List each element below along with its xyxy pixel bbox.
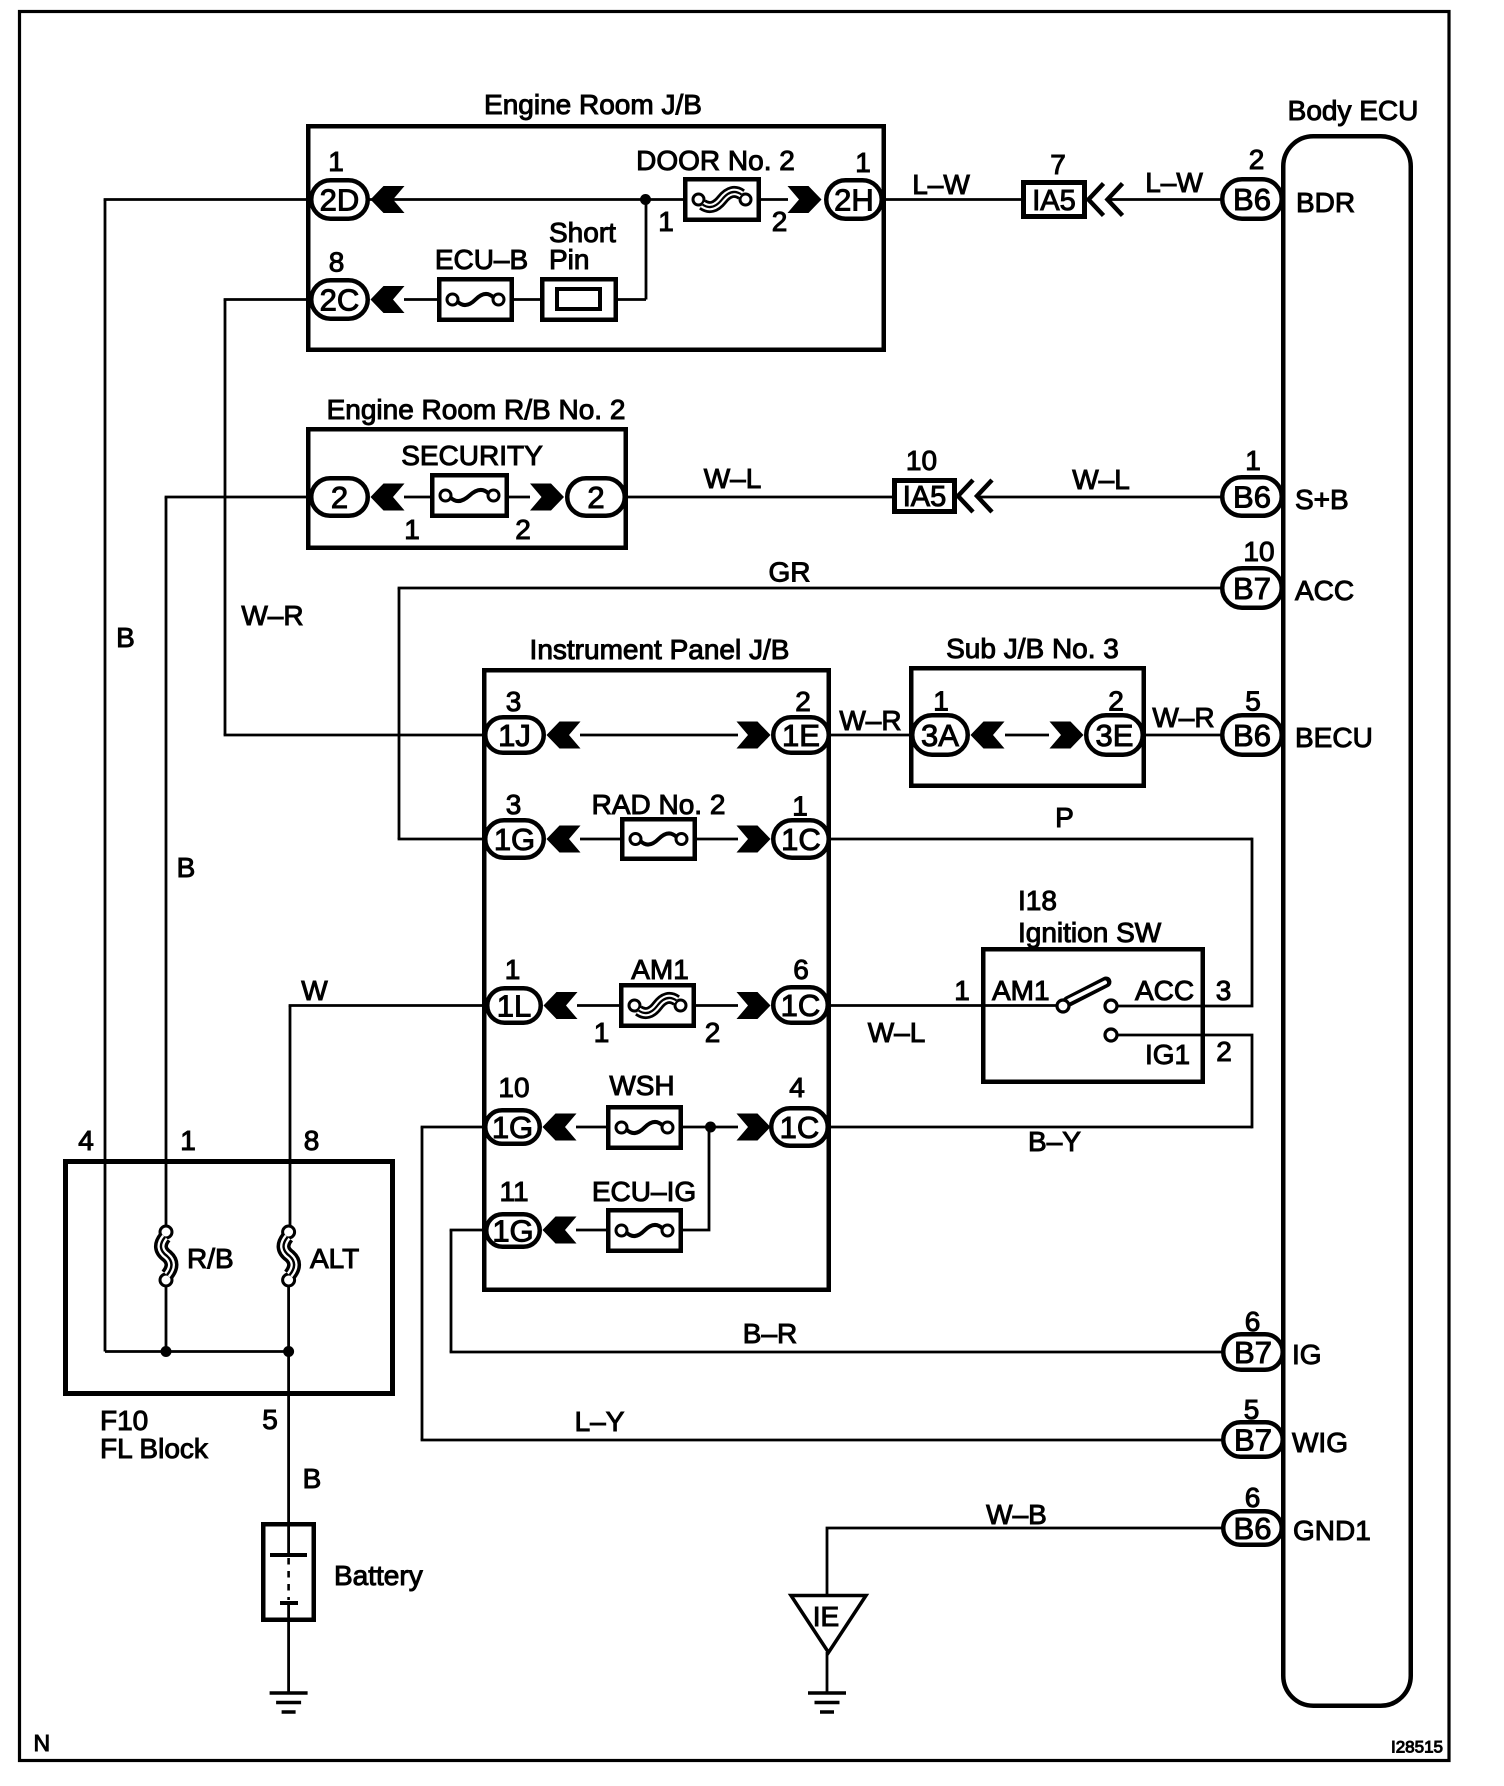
wire GR horizontal from ACC xyxy=(398,587,1222,590)
wire from SECURITY pin1 down to R/B fusible link xyxy=(165,497,168,1226)
svg-text:2: 2 xyxy=(1216,1036,1232,1067)
svg-text:1: 1 xyxy=(404,514,420,545)
svg-text:3: 3 xyxy=(506,686,522,717)
terminal oval B7 WIG xyxy=(1223,1422,1283,1457)
svg-text:Pin: Pin xyxy=(549,244,589,275)
svg-text:ACC: ACC xyxy=(1295,575,1354,606)
fuse ECU-IG xyxy=(608,1210,681,1251)
arrow into 2C xyxy=(371,286,405,313)
svg-text:B: B xyxy=(303,1463,322,1494)
svg-text:F10: F10 xyxy=(100,1405,148,1436)
junction node on 2D-DOOR wire xyxy=(640,194,651,205)
wire junction down to Short Pin xyxy=(645,200,648,300)
connector oval 2 right xyxy=(567,478,625,516)
svg-text:W–L: W–L xyxy=(704,463,762,494)
junction node ALT xyxy=(283,1346,294,1357)
svg-text:I18: I18 xyxy=(1018,885,1057,916)
F10 FL block box xyxy=(66,1162,393,1394)
svg-text:2D: 2D xyxy=(320,183,360,218)
svg-text:1L: 1L xyxy=(497,989,531,1024)
svg-text:1: 1 xyxy=(658,206,674,237)
svg-text:B7: B7 xyxy=(1234,1335,1272,1370)
wire 3A-3E xyxy=(1005,734,1049,737)
wire IE to ground xyxy=(826,1652,829,1693)
wire 2C to left column xyxy=(224,298,311,301)
svg-text:2: 2 xyxy=(515,514,531,545)
arrow into 1E xyxy=(737,722,771,749)
fuse DOOR No. 2 xyxy=(685,179,759,220)
arrow into 1J xyxy=(547,722,581,749)
switch ACC contact xyxy=(1105,1000,1117,1012)
svg-text:IA5: IA5 xyxy=(903,481,947,513)
fusible link R/B xyxy=(160,1226,172,1238)
svg-text:S+B: S+B xyxy=(1295,484,1349,515)
wire WSH 1G left xyxy=(421,1126,484,1129)
svg-text:P: P xyxy=(1055,802,1074,833)
svg-text:BECU: BECU xyxy=(1295,722,1373,753)
row RAD wire segments xyxy=(580,838,622,841)
svg-text:2: 2 xyxy=(772,206,788,237)
svg-text:W–B: W–B xyxy=(986,1499,1047,1530)
svg-text:WSH: WSH xyxy=(609,1070,674,1101)
wire ECU-IG 1G left xyxy=(450,1229,484,1232)
wire W-R down to 1J horizontal xyxy=(224,734,484,737)
row ECU-IG wire segments xyxy=(576,1229,608,1232)
ignition switch I18 box xyxy=(983,949,1203,1082)
fuse SECURITY xyxy=(432,475,507,516)
svg-text:BDR: BDR xyxy=(1296,187,1355,218)
double chevron into IA5 xyxy=(1089,184,1123,216)
svg-text:1: 1 xyxy=(954,975,970,1006)
svg-text:4: 4 xyxy=(78,1125,94,1156)
svg-text:6: 6 xyxy=(793,954,809,985)
switch IG1 contact xyxy=(1105,1029,1117,1041)
wire 2 to IA5 xyxy=(626,496,894,499)
svg-text:SECURITY: SECURITY xyxy=(401,440,543,471)
svg-text:5: 5 xyxy=(1245,686,1261,717)
svg-text:1: 1 xyxy=(855,147,871,178)
svg-text:1C: 1C xyxy=(780,1110,820,1145)
svg-text:1: 1 xyxy=(505,954,521,985)
svg-text:2: 2 xyxy=(1249,144,1265,175)
terminal oval B7 IG xyxy=(1223,1334,1283,1370)
svg-text:2H: 2H xyxy=(834,183,874,218)
svg-text:1: 1 xyxy=(328,146,344,177)
junction node after WSH xyxy=(705,1122,716,1133)
svg-text:B6: B6 xyxy=(1234,1511,1272,1546)
arrow into 2H xyxy=(788,186,822,213)
junction node R/B xyxy=(161,1346,172,1357)
svg-text:AM1: AM1 xyxy=(631,954,689,985)
terminal oval B7 ACC xyxy=(1222,568,1282,608)
wire B from 2D down to FL block junction xyxy=(104,200,107,1352)
svg-text:L–W: L–W xyxy=(912,169,970,200)
svg-text:1G: 1G xyxy=(492,1214,533,1249)
svg-text:1G: 1G xyxy=(494,822,535,857)
arrow into 1G rad xyxy=(547,826,581,853)
connector oval 2 left xyxy=(311,478,368,516)
terminal oval B6 GND1 xyxy=(1223,1511,1282,1545)
svg-text:B–R: B–R xyxy=(743,1318,797,1349)
wire ECU-IG fuse up to WSH junction xyxy=(681,1127,709,1230)
double chevron into IA5 second xyxy=(958,480,992,512)
arrow into 1L xyxy=(544,992,578,1019)
svg-text:2: 2 xyxy=(587,480,604,515)
wire R/B link to oval 2 xyxy=(165,496,311,499)
svg-text:Ignition SW: Ignition SW xyxy=(1018,917,1162,948)
battery ground xyxy=(270,1691,308,1695)
wire W horizontal to 1L xyxy=(289,1004,486,1007)
svg-text:W–L: W–L xyxy=(1072,464,1130,495)
svg-text:2: 2 xyxy=(795,686,811,717)
svg-text:IG1: IG1 xyxy=(1145,1039,1190,1070)
battery xyxy=(263,1524,314,1620)
Body ECU box xyxy=(1283,136,1411,1706)
svg-text:GR: GR xyxy=(769,557,811,588)
svg-text:ECU–B: ECU–B xyxy=(435,244,528,275)
svg-text:W–R: W–R xyxy=(241,600,303,631)
svg-text:3A: 3A xyxy=(921,718,959,753)
fusible link ALT xyxy=(283,1226,295,1238)
wire AM1 into switch xyxy=(983,1004,1057,1007)
wire RAD row to GR column xyxy=(398,838,484,841)
wire IA5 to BDR xyxy=(1109,198,1222,201)
wire L-Y horizontal to WIG xyxy=(421,1439,1222,1442)
Sub J/B No. 3 box xyxy=(911,668,1144,786)
wire B-Y from 1C to ignition IG1 xyxy=(829,1126,1252,1129)
row AM1 wire segments xyxy=(577,1004,621,1007)
svg-text:W–R: W–R xyxy=(1152,702,1214,733)
arrow into 1C wsh xyxy=(737,1114,771,1141)
wire B-R horizontal to IG xyxy=(450,1351,1222,1354)
svg-text:B7: B7 xyxy=(1233,571,1271,606)
terminal oval B6 BECU xyxy=(1222,715,1282,755)
wire 2D to DOOR fuse xyxy=(369,198,685,201)
svg-text:10: 10 xyxy=(906,445,937,476)
arrow into right 2 xyxy=(530,484,564,511)
wire R/B link to junction xyxy=(165,1286,168,1352)
svg-text:DOOR No. 2: DOOR No. 2 xyxy=(636,145,795,176)
svg-text:1: 1 xyxy=(180,1125,196,1156)
svg-text:B–Y: B–Y xyxy=(1028,1126,1081,1157)
svg-text:3: 3 xyxy=(506,789,522,820)
wire B-R vertical from ECU-IG 1G xyxy=(450,1230,453,1352)
wire 2C arrow to ECU-B xyxy=(404,298,437,301)
fuse WSH xyxy=(608,1107,681,1148)
arrow into 1G ecuig xyxy=(543,1217,577,1244)
fuse AM1 xyxy=(621,985,694,1026)
wire ECU-B to Short Pin xyxy=(514,298,542,301)
row 1J-1E wire xyxy=(580,734,738,737)
svg-text:FL Block: FL Block xyxy=(100,1433,209,1464)
svg-text:6: 6 xyxy=(1245,1482,1261,1513)
svg-text:IG: IG xyxy=(1292,1339,1322,1370)
svg-text:W–R: W–R xyxy=(839,705,901,736)
junction connector IA5 second xyxy=(895,481,955,512)
svg-text:5: 5 xyxy=(262,1404,278,1435)
ground connector IE triangle xyxy=(791,1596,866,1653)
svg-text:IE: IE xyxy=(813,1601,839,1632)
svg-text:Engine Room R/B No. 2: Engine Room R/B No. 2 xyxy=(327,394,626,425)
wire fuse to arrow xyxy=(509,496,530,499)
fuse ECU-B xyxy=(439,279,512,320)
switch pivot contact xyxy=(1057,1000,1069,1012)
svg-text:B6: B6 xyxy=(1233,480,1271,515)
svg-text:1: 1 xyxy=(1245,445,1261,476)
svg-text:ALT: ALT xyxy=(310,1243,359,1274)
svg-text:ACC: ACC xyxy=(1135,975,1194,1006)
wire 1E to 3A xyxy=(830,734,912,737)
battery cell divider dashed xyxy=(287,1558,290,1600)
battery negative plate xyxy=(280,1601,298,1605)
svg-text:IA5: IA5 xyxy=(1032,185,1076,217)
wire arrow to SECURITY fuse xyxy=(404,496,432,499)
svg-text:10: 10 xyxy=(1243,536,1274,567)
wire IG1 contact to box edge xyxy=(1117,1034,1203,1037)
row WSH wire segments xyxy=(576,1126,608,1129)
arrow into 3E xyxy=(1050,722,1084,749)
svg-text:2: 2 xyxy=(1108,686,1124,717)
svg-text:10: 10 xyxy=(498,1072,529,1103)
wire 2H to IA5 xyxy=(883,198,1023,201)
svg-text:1C: 1C xyxy=(781,822,821,857)
arrow into 1G wsh xyxy=(543,1114,577,1141)
svg-text:W: W xyxy=(301,975,328,1006)
Engine Room R/B No. 2 box xyxy=(308,429,626,548)
svg-text:1: 1 xyxy=(594,1017,610,1048)
svg-text:8: 8 xyxy=(304,1125,320,1156)
svg-text:4: 4 xyxy=(789,1072,805,1103)
svg-text:R/B: R/B xyxy=(187,1243,234,1274)
wire 2D to left column xyxy=(104,198,311,201)
svg-text:B: B xyxy=(177,852,196,883)
svg-text:Battery: Battery xyxy=(334,1560,423,1591)
wire ACC contact to box edge xyxy=(1117,1005,1203,1008)
svg-text:GND1: GND1 xyxy=(1293,1515,1371,1546)
svg-text:Body ECU: Body ECU xyxy=(1288,95,1419,126)
svg-text:N: N xyxy=(34,1730,51,1756)
battery positive plate xyxy=(270,1553,307,1557)
svg-text:B6: B6 xyxy=(1233,182,1271,217)
junction line in FL block xyxy=(105,1350,289,1353)
svg-text:Instrument Panel J/B: Instrument Panel J/B xyxy=(530,634,790,665)
svg-text:L–Y: L–Y xyxy=(575,1406,625,1437)
svg-text:1: 1 xyxy=(792,791,808,822)
arrow into 1C rad xyxy=(737,826,771,853)
svg-text:RAD No. 2: RAD No. 2 xyxy=(592,789,726,820)
svg-text:11: 11 xyxy=(499,1176,528,1207)
svg-text:I28515: I28515 xyxy=(1391,1738,1443,1757)
arrow into left 2 xyxy=(371,484,405,511)
junction connector IA5 xyxy=(1024,183,1085,217)
wire IA5 to S+B xyxy=(979,496,1223,499)
svg-text:3: 3 xyxy=(1216,975,1232,1006)
fuse RAD No. 2 xyxy=(622,819,695,859)
svg-text:1E: 1E xyxy=(782,718,820,753)
wire P from 1C to ignition ACC xyxy=(830,838,1252,841)
svg-text:ECU–IG: ECU–IG xyxy=(592,1176,696,1207)
svg-text:2: 2 xyxy=(705,1017,721,1048)
ground IE xyxy=(808,1691,846,1695)
wire battery to ground xyxy=(287,1603,290,1693)
svg-text:1G: 1G xyxy=(492,1110,533,1145)
svg-text:B: B xyxy=(116,622,135,653)
short pin component xyxy=(542,279,616,320)
svg-text:8: 8 xyxy=(329,247,345,278)
svg-text:1: 1 xyxy=(933,686,949,717)
arrow into 2D xyxy=(371,186,405,213)
switch lever xyxy=(1068,982,1106,1002)
svg-text:B7: B7 xyxy=(1234,1423,1272,1458)
svg-text:2: 2 xyxy=(331,480,348,515)
Instrument Panel J/B box xyxy=(484,670,829,1290)
terminal oval B6 S+B xyxy=(1222,477,1282,516)
svg-text:L–W: L–W xyxy=(1145,167,1203,198)
svg-text:1J: 1J xyxy=(498,718,531,753)
svg-text:2C: 2C xyxy=(320,283,360,318)
arrow into 1C am1 xyxy=(737,992,771,1019)
wire GR vertical xyxy=(398,588,401,839)
terminal oval B6 BDR xyxy=(1222,179,1282,219)
svg-text:Engine Room J/B: Engine Room J/B xyxy=(484,89,702,120)
arrow into 3A xyxy=(971,722,1005,749)
wire ALT link to junction, down to battery xyxy=(287,1286,290,1523)
svg-text:W–L: W–L xyxy=(868,1017,926,1048)
wire L-Y vertical from WSH 1G xyxy=(421,1127,424,1440)
Engine Room J/B box xyxy=(308,126,884,350)
svg-text:7: 7 xyxy=(1050,149,1066,180)
wire W-R from 2C down to 1J xyxy=(224,300,227,736)
svg-text:WIG: WIG xyxy=(1292,1427,1348,1458)
svg-text:3E: 3E xyxy=(1096,718,1134,753)
wire W-B from GND1 to IE xyxy=(827,1528,1222,1597)
wire 3E to BECU xyxy=(1144,734,1222,737)
svg-text:B6: B6 xyxy=(1233,718,1271,753)
wire DOOR fuse to arrow xyxy=(761,198,788,201)
svg-text:1C: 1C xyxy=(781,988,821,1023)
svg-text:Sub J/B No. 3: Sub J/B No. 3 xyxy=(946,633,1119,664)
svg-text:AM1: AM1 xyxy=(992,975,1050,1006)
wire 1C to ignition AM1 xyxy=(829,1004,983,1007)
wire W from 1L down to ALT link xyxy=(289,1006,292,1227)
